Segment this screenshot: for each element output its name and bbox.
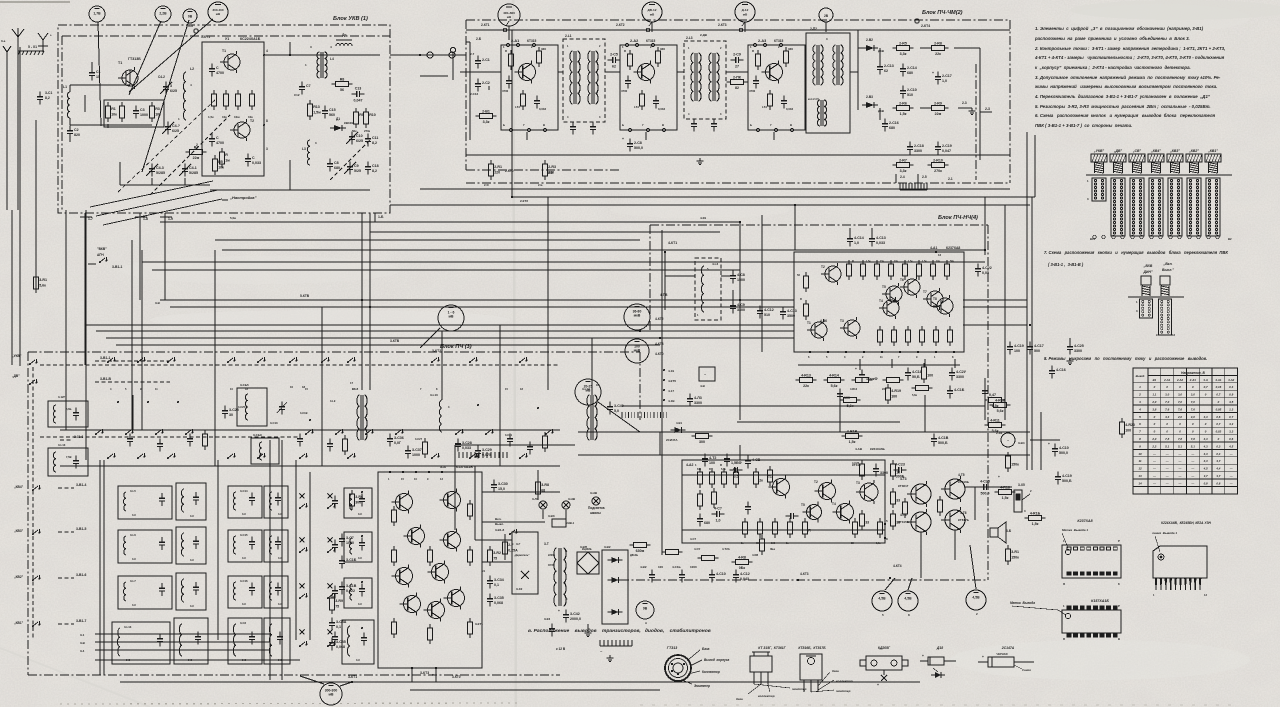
svg-text:3-В1-7: 3-В1-7	[76, 619, 86, 623]
svg-text:расположены на раме приемни: расположены на раме приемника и условно …	[1034, 36, 1190, 41]
svg-text:68: 68	[541, 488, 545, 492]
svg-text:Б: Б	[503, 123, 505, 127]
DIN pin labels	[1136, 300, 1176, 337]
capacitor 2-C16 680	[882, 119, 899, 132]
cap 4-C22 0,05	[975, 264, 992, 277]
svg-text:300: 300	[355, 500, 361, 504]
svg-text:4: 4	[266, 49, 268, 53]
svg-text:4-Л3: 4-Л3	[694, 396, 702, 400]
svg-text:R3: R3	[155, 107, 160, 111]
label Настройка	[222, 195, 257, 200]
svg-text:3-Б: 3-Б	[1006, 529, 1012, 533]
svg-text:2-КТ2: 2-КТ2	[616, 23, 625, 27]
filter box A row2	[118, 530, 172, 563]
svg-text:4700: 4700	[216, 141, 224, 145]
svg-text:1. Элементы с цифрой „3” в: 1. Элементы с цифрой „3” в позиционном о…	[1035, 26, 1204, 31]
svg-text:3300: 3300	[737, 308, 745, 312]
wire 4 in	[662, 230, 793, 555]
svg-text:1,5к: 1,5к	[876, 542, 881, 545]
svg-text:8. Режимы микросхем по п: 8. Режимы микросхем по постоянному току …	[1044, 356, 1207, 361]
wire b3 links	[86, 395, 500, 466]
resistor U1.R2	[222, 90, 228, 119]
note line 3	[1034, 46, 1225, 51]
svg-text:2-В3: 2-В3	[866, 95, 873, 99]
svg-text:2-4: 2-4	[900, 175, 905, 179]
svg-text:4,7: 4,7	[1215, 459, 1220, 463]
test point TP8 2V	[819, 8, 833, 22]
svg-text:1,5к: 1,5к	[908, 260, 913, 263]
svg-text:3-С: 3-С	[190, 514, 194, 518]
resistor 2-R8 22k	[928, 41, 949, 56]
svg-text:R: R	[752, 49, 754, 53]
svg-text:Вывод: Вывод	[1136, 374, 1145, 378]
svg-text:3-С1В: 3-С1В	[346, 584, 357, 588]
svg-text:С2: С2	[74, 128, 79, 132]
coil L2	[178, 67, 194, 121]
svg-text:2200в: 2200в	[548, 554, 556, 557]
wire vert left mid	[36, 120, 142, 430]
capacitor 4-C18 50	[905, 368, 922, 381]
svg-text:7,6: 7,6	[1191, 407, 1195, 411]
svg-text:R10: R10	[369, 113, 376, 117]
coil 3-L10 right	[430, 393, 450, 432]
res 2-F	[503, 538, 518, 558]
svg-text:ГТ313Б: ГТ313Б	[128, 57, 141, 61]
caps 3-C34 35	[487, 576, 504, 607]
switch contacts row1	[107, 357, 528, 363]
res 3-R8 68	[536, 478, 549, 498]
svg-text:500,0: 500,0	[981, 492, 990, 496]
svg-text:5,6к: 5,6к	[997, 409, 1004, 413]
resistors row below IC	[850, 378, 933, 397]
svg-text:7,0: 7,0	[1191, 400, 1195, 404]
svg-text:1,0: 1,0	[942, 79, 947, 83]
svg-text:3-С35: 3-С35	[336, 640, 346, 644]
speaker 3-B	[990, 522, 1012, 543]
svg-text:3,0: 3,0	[1178, 393, 1182, 397]
svg-text:3,3: 3,3	[1229, 430, 1233, 434]
svg-text:4-С10: 4-С10	[1059, 446, 1069, 450]
svg-text:мкВ: мкВ	[634, 314, 641, 318]
svg-text:3-R2: 3-R2	[493, 551, 501, 555]
IC resistors top	[847, 259, 955, 280]
svg-text:0,033: 0,033	[876, 241, 885, 245]
svg-text:С13: С13	[355, 87, 362, 91]
svg-text:4,3: 4,3	[1203, 444, 1208, 448]
svg-text:2-1: 2-1	[948, 177, 953, 181]
bus labels	[155, 199, 827, 343]
svg-text:—: —	[1152, 467, 1156, 471]
label 2-KT3	[718, 22, 745, 32]
svg-text:2-Б: 2-Б	[538, 183, 543, 187]
comb 4 rail	[455, 452, 507, 458]
coil 3-L1 left	[48, 395, 88, 427]
svg-text:4-19: 4-19	[668, 369, 674, 373]
label 3-KT1 bottom	[348, 675, 357, 683]
capacitor C13 0,047	[352, 87, 365, 103]
label 2S147A	[1001, 646, 1015, 650]
filter box D row4	[264, 618, 290, 664]
leader wire from TP1	[98, 22, 101, 126]
svg-text:ДВ-12: ДВ-12	[648, 8, 657, 12]
svg-text:2-R9: 2-R9	[934, 101, 942, 105]
svg-text:500,Б: 500,Б	[938, 441, 948, 445]
IC pin top	[935, 251, 942, 257]
UNCh extra res	[698, 466, 870, 538]
svg-text:1000: 1000	[690, 565, 697, 569]
svg-text:0,6: 0,6	[1229, 437, 1233, 441]
resistor R8 56	[332, 77, 353, 92]
svg-text:0,1: 0,1	[494, 583, 499, 587]
label 3-K3	[544, 617, 555, 636]
variable cap C10 6/25	[346, 132, 363, 145]
mid filter col2	[344, 488, 372, 608]
labels 4 caps row	[640, 565, 750, 582]
svg-text:„ДВ”: „ДВ”	[12, 374, 20, 378]
svg-text:R: R	[1063, 637, 1065, 641]
pin 3	[266, 147, 268, 151]
label 2-2	[980, 107, 992, 112]
IC 3-A pins top	[388, 471, 443, 481]
svg-text:4-С26: 4-С26	[852, 461, 860, 465]
svg-text:3-4: 3-4	[80, 649, 85, 653]
svg-text:8,2: 8,2	[45, 96, 50, 100]
label 3-A top	[0, 0, 1, 1]
svg-text:С15: С15	[329, 108, 336, 112]
svg-text:100: 100	[1125, 428, 1131, 432]
svg-text:1,5к: 1,5к	[1032, 522, 1039, 526]
pinout KD205	[860, 656, 908, 687]
svg-text:+: +	[622, 137, 624, 141]
leader wire from TP4	[129, 19, 213, 92]
svg-text:4,3: 4,3	[1203, 452, 1208, 456]
svg-text:3-R1: 3-R1	[39, 278, 47, 282]
capacitor C7	[294, 82, 311, 97]
svg-text:Вывод корпуса: Вывод корпуса	[704, 658, 730, 662]
svg-text:4-А1: 4-А1	[1214, 378, 1222, 382]
capacitor C1 15	[89, 62, 101, 80]
wire trunk h2	[390, 204, 1030, 206]
svg-text:50,Б: 50,Б	[912, 375, 920, 379]
svg-text:3,3к: 3,3к	[483, 120, 490, 124]
caps row mid4	[702, 454, 761, 469]
svg-text:3-С: 3-С	[126, 658, 130, 662]
trafo right 3-L12	[582, 383, 624, 440]
svg-text:Д1В: Д1В	[878, 49, 885, 53]
svg-text:К224ХА6Б: К224ХА6Б	[870, 447, 886, 451]
svg-text:4-R1Б: 4-R1Б	[1030, 511, 1041, 515]
svg-text:300: 300	[699, 440, 705, 444]
filter box A row3	[118, 576, 172, 609]
res 4-R11 5,6k	[985, 418, 1006, 433]
svg-text:Метка Вывода: Метка Вывода	[1010, 601, 1035, 605]
svg-text:—: —	[1190, 452, 1194, 456]
label 2-KTO	[505, 169, 553, 175]
svg-text:„СВ”: „СВ”	[1132, 149, 1142, 153]
svg-text:17: 17	[350, 381, 354, 385]
heterodyne coil box 3-L	[237, 383, 267, 426]
svg-text:3-С: 3-С	[278, 512, 282, 516]
svg-text:4-АВ: 4-АВ	[855, 447, 863, 451]
svg-text:3-С37: 3-С37	[412, 448, 422, 452]
svg-text:R: R	[720, 463, 722, 467]
svg-text:3-С2: 3-С2	[240, 621, 247, 625]
svg-text:3-В1-8: 3-В1-8	[495, 528, 505, 532]
svg-text:100: 100	[891, 394, 897, 398]
cap 4-C23 300B	[894, 463, 907, 479]
svg-text:0,4: 0,4	[1229, 385, 1233, 389]
capacitor C3 1000	[133, 106, 148, 119]
block PCh(3) border top	[28, 344, 640, 352]
label Vykh	[1162, 262, 1174, 272]
svg-text:4-С19: 4-С19	[1062, 474, 1072, 478]
test point TP4 300-400mV	[208, 2, 228, 22]
svg-text:—: —	[1152, 459, 1156, 463]
svg-text:У1: У1	[225, 37, 229, 41]
IC 3-A transistors	[392, 489, 465, 622]
svg-text:3300: 3300	[880, 471, 888, 475]
wire bottom rails	[120, 682, 920, 690]
svg-text:4-В2: 4-В2	[640, 565, 647, 569]
wire rail 445	[455, 445, 575, 466]
svg-text:2-КТ1: 2-КТ1	[481, 23, 490, 27]
svg-text:2-С8: 2-С8	[634, 141, 642, 145]
ground block2	[697, 158, 704, 164]
wire IC3A out right	[482, 492, 560, 562]
svg-text:1м: 1м	[225, 158, 230, 162]
pin 1-9	[160, 213, 173, 222]
diag tuning dashes	[118, 100, 370, 195]
label 3-31-3	[60, 435, 83, 440]
trafo mid 3-L8	[352, 387, 367, 440]
svg-text:3300: 3300	[956, 375, 964, 379]
svg-text:3-L13: 3-L13	[58, 443, 66, 447]
svg-text:3: 3	[266, 147, 268, 151]
svg-text:Блок ПЧ (3): Блок ПЧ (3)	[440, 344, 472, 350]
UNCh box	[682, 460, 885, 543]
svg-text:С18: С18	[372, 164, 379, 168]
label 3-KT3 bottom	[420, 671, 429, 675]
svg-text:100: 100	[844, 396, 850, 400]
label K237XA8	[1077, 519, 1092, 523]
K237 metka	[1062, 528, 1088, 548]
svg-text:1000: 1000	[346, 541, 354, 545]
block2 inner border step	[975, 64, 977, 180]
wire b1-b2	[390, 52, 466, 58]
wire bus mid1	[160, 299, 1027, 301]
svg-text:2-9: 2-9	[548, 171, 553, 175]
mid filter col2 row4	[342, 620, 374, 664]
svg-text:В: В	[1118, 637, 1120, 641]
svg-text:С: С	[216, 66, 219, 70]
svg-text:3-R1: 3-R1	[1011, 550, 1019, 554]
svg-text:10к: 10к	[111, 112, 117, 116]
label KT315	[758, 646, 786, 650]
svg-text:2-С19: 2-С19	[942, 144, 952, 148]
wire ukv bottom	[210, 160, 370, 190]
svg-text:100: 100	[709, 461, 715, 465]
wire ukv bus top	[264, 42, 380, 56]
svg-text:2-R3: 2-R3	[548, 165, 556, 169]
svg-text:0,068: 0,068	[494, 601, 503, 605]
svg-text:—: —	[1152, 481, 1156, 485]
svg-text:к 12 В: к 12 В	[556, 647, 566, 651]
svg-text:7,8: 7,8	[1178, 437, 1182, 441]
svg-text:8,2: 8,2	[372, 169, 377, 173]
svg-text:3300: 3300	[694, 401, 702, 405]
capacitor 2-C5	[608, 53, 621, 69]
svg-text:10: 10	[290, 385, 294, 389]
wire tp bottom	[885, 545, 976, 590]
svg-text:2,0: 2,0	[1151, 437, 1156, 441]
svg-text:5/25: 5/25	[354, 169, 361, 173]
svg-text:10к: 10к	[155, 112, 161, 116]
svg-text:1,5к: 1,5к	[900, 112, 907, 116]
svg-text:6/25: 6/25	[356, 139, 363, 143]
svg-text:R8: R8	[340, 77, 345, 81]
svg-text:3-В4: 3-В4	[1018, 441, 1025, 445]
switch 3-B4	[996, 431, 1025, 447]
svg-text:10к: 10к	[218, 165, 224, 169]
resistor 2-R2 680	[484, 160, 502, 187]
svg-text:3-С28: 3-С28	[462, 441, 472, 445]
svg-text:„Вкл.: „Вкл.	[1163, 262, 1173, 266]
svg-text:4,5В: 4,5В	[878, 597, 886, 601]
amplifier stage 2-A1	[501, 39, 558, 140]
svg-text:В: В	[662, 123, 664, 127]
svg-text:ЧЕРНАЯ: ЧЕРНАЯ	[997, 652, 1008, 656]
svg-text:1-7: 1-7	[88, 217, 93, 221]
svg-text:—: —	[1229, 467, 1233, 471]
svg-text:3-В1-1: 3-В1-1	[100, 356, 110, 360]
svg-text:1-8: 1-8	[143, 217, 148, 221]
res 150k	[1006, 452, 1019, 472]
note line 9	[1035, 104, 1211, 109]
svg-text:62: 62	[612, 65, 616, 69]
transistor U1.T2	[230, 119, 254, 141]
resistor 2-R5 3,3k	[893, 41, 914, 56]
capacitor U1.C 4700	[209, 64, 224, 77]
svg-text:Т4: Т4	[832, 502, 836, 506]
svg-text:1,5к: 1,5к	[866, 260, 871, 263]
svg-text:С12: С12	[294, 93, 300, 97]
wire 1-3 top	[188, 24, 210, 39]
svg-text:3-НВ: 3-НВ	[568, 497, 576, 501]
svg-text:3,7: 3,7	[1204, 474, 1208, 478]
svg-text:мВ: мВ	[329, 693, 335, 697]
svg-text:КТ315: КТ315	[646, 39, 656, 43]
caps 3-C group	[339, 534, 357, 595]
svg-text:0,047: 0,047	[354, 99, 363, 103]
svg-text:4-С17: 4-С17	[1034, 344, 1044, 348]
svg-text:Подсветка: Подсветка	[588, 506, 605, 510]
svg-text:2,2: 2,2	[1151, 444, 1156, 448]
svg-text:3-С34: 3-С34	[494, 578, 504, 582]
wire tuning	[120, 162, 210, 185]
capacitor 4-C21 3300	[949, 368, 967, 381]
svg-text:К237ХА8: К237ХА8	[1077, 519, 1092, 523]
svg-text:3-L9: 3-L9	[330, 399, 336, 403]
resistor 4-R13	[796, 373, 817, 388]
svg-text:0,022: 0,022	[346, 589, 355, 593]
svg-text:R: R	[852, 259, 854, 263]
svg-text:270к: 270к	[364, 129, 371, 133]
svg-text:0,033: 0,033	[658, 107, 665, 111]
filter box D row2	[264, 530, 288, 562]
wire ukv verticals	[85, 213, 165, 365]
res 300	[692, 434, 713, 445]
svg-text:3-С16: 3-С16	[240, 579, 248, 583]
label KD205	[878, 646, 891, 650]
svg-text:коллектор: коллектор	[836, 679, 853, 683]
svg-text:4700: 4700	[621, 89, 628, 93]
filter box B row1	[176, 483, 206, 520]
svg-text:—: —	[1178, 452, 1182, 456]
svg-text:4-Т6: 4-Т6	[960, 511, 967, 515]
amplifier stage 2-A2	[620, 39, 677, 140]
svg-text:—: —	[1178, 474, 1182, 478]
svg-text:75: 75	[493, 556, 497, 560]
wire det	[850, 30, 980, 160]
svg-text:2-R6: 2-R6	[899, 101, 907, 105]
svg-text:L4: L4	[330, 57, 334, 61]
svg-text:0,6: 0,6	[1216, 415, 1220, 419]
wire trunk v512	[512, 30, 762, 390]
svg-text:—: —	[1229, 474, 1233, 478]
svg-text:3-В1-6: 3-В1-6	[76, 573, 86, 577]
svg-text:ГТ313: ГТ313	[667, 646, 677, 650]
test point TP7 D-12mV	[735, 2, 755, 22]
svg-text:3-Х5: 3-Х5	[1018, 483, 1025, 487]
filter box C row1	[228, 486, 262, 518]
svg-text:R: R	[225, 153, 228, 157]
svg-text:—: —	[1165, 452, 1169, 456]
svg-text:56к: 56к	[352, 129, 357, 133]
svg-text:3,0: 3,0	[1191, 415, 1195, 419]
svg-text:5,6к: 5,6к	[912, 393, 918, 397]
svg-text:4-R13: 4-R13	[850, 387, 858, 391]
IC 3-A pins bottom	[408, 667, 437, 677]
label 2-KT2	[616, 22, 652, 32]
caps row below IC	[837, 366, 1066, 402]
svg-text:4700: 4700	[749, 89, 756, 93]
svg-text:1к: 1к	[896, 470, 900, 474]
wire trunk h4	[215, 232, 720, 240]
svg-text:3-С: 3-С	[242, 602, 246, 606]
svg-text:220: 220	[494, 170, 500, 174]
svg-text:3-С: 3-С	[278, 658, 282, 662]
svg-text:56: 56	[340, 88, 344, 92]
svg-text:—: —	[1229, 452, 1233, 456]
svg-text:0,8: 0,8	[1204, 481, 1208, 485]
svg-text:0,1: 0,1	[336, 625, 341, 629]
svg-text:3-С29: 3-С29	[482, 448, 492, 452]
block UKV inner border	[62, 36, 390, 210]
resistor U1.R1	[208, 90, 216, 119]
svg-text:4-С19: 4-С19	[1014, 344, 1024, 348]
svg-text:3-КТ1: 3-КТ1	[348, 675, 357, 679]
svg-text:+: +	[982, 655, 984, 659]
svg-text:3-С: 3-С	[242, 658, 246, 662]
svg-text:4-СУ: 4-СУ	[694, 547, 700, 551]
res col right of UNCh	[891, 460, 901, 530]
svg-text:3-В1-5: 3-В1-5	[76, 527, 86, 531]
wire tp300	[340, 682, 352, 686]
svg-text:4-R11: 4-R11	[990, 418, 1000, 422]
svg-text:Др: Др	[342, 33, 347, 37]
svg-text:База: База	[702, 647, 710, 651]
switch VKV APCh	[88, 247, 122, 269]
